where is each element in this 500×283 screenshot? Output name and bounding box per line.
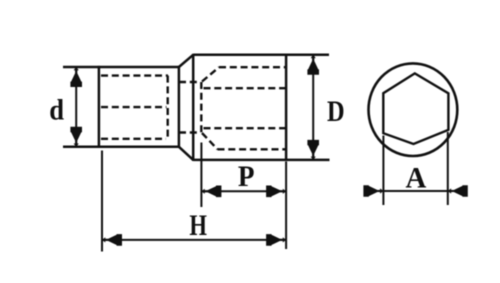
svg-text:P: P [238,160,255,193]
svg-text:A: A [406,162,427,195]
svg-text:H: H [189,209,207,242]
svg-text:d: d [49,94,64,127]
svg-text:D: D [327,95,345,128]
